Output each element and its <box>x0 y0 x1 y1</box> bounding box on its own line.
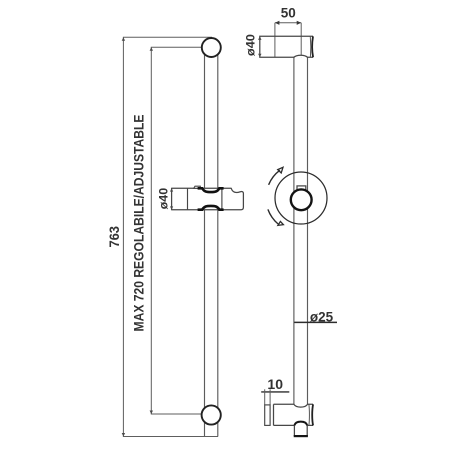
dimension 763 top extension line <box>123 36 212 38</box>
label 763 <box>107 226 122 248</box>
side view wall bracket top <box>260 36 313 57</box>
dimension MAX 720 vertical line <box>150 47 152 414</box>
side view swivel outer circle <box>275 172 327 224</box>
dimension MAX 720 bottom extension line <box>151 413 202 415</box>
front view slider left cap divider <box>187 188 189 209</box>
side view bottom bracket body <box>274 404 314 425</box>
front view slider body <box>172 188 244 209</box>
side view bracket diameter 40 arrowheads <box>258 36 261 57</box>
side view bottom bracket break edge <box>309 404 313 425</box>
svg-text:ø25: ø25 <box>310 309 334 324</box>
front view slider top collar arc <box>198 188 224 192</box>
rotation arrow top head <box>278 167 283 173</box>
side view hose outlet shoulder dome <box>294 422 307 426</box>
svg-text:763: 763 <box>107 226 122 248</box>
dimension 50 line <box>275 22 301 24</box>
rotation arrow top arc <box>269 170 280 185</box>
leader line diameter 25 <box>294 321 337 323</box>
front view top end cap circle <box>202 38 221 57</box>
front view bottom end cap circle <box>202 405 221 424</box>
side view knob inner circle <box>291 189 312 210</box>
dimension MAX 720 top extension line <box>151 46 203 48</box>
front view slider dimension ticks <box>170 188 173 209</box>
label MAX 720 REGOLABILE/ADJUSTABLE <box>131 115 146 332</box>
svg-text:50: 50 <box>281 6 296 21</box>
side view knob tab <box>297 186 306 190</box>
dimension 50 label <box>281 6 296 21</box>
side view hose outlet bottom edge <box>294 435 308 437</box>
dimension 50 arrowheads <box>275 21 301 25</box>
dimension 10 label <box>267 376 283 392</box>
dimension 50 right extension line <box>300 23 302 58</box>
side view bottom wall plate <box>265 405 270 426</box>
rotation arrow bottom head <box>278 221 284 225</box>
dimension 763 arrowheads <box>122 37 125 436</box>
label diameter 40 top bracket <box>244 34 258 56</box>
front view rail tube <box>205 42 218 437</box>
side view wall bracket top break edge <box>310 36 313 57</box>
front view slider release button tab <box>194 186 201 188</box>
side view hose outlet <box>294 425 307 436</box>
svg-text:MAX 720 REGOLABILE/ADJUSTABLE: MAX 720 REGOLABILE/ADJUSTABLE <box>131 115 146 332</box>
dimension 10 line <box>261 391 289 393</box>
front view slider bottom collar arc <box>198 206 224 210</box>
svg-text:ø40: ø40 <box>244 34 258 56</box>
dimension 10 extension lines <box>265 389 270 405</box>
svg-text:ø40: ø40 <box>159 188 171 210</box>
dimension 763 vertical line <box>122 37 124 436</box>
label diameter 25 <box>310 309 334 324</box>
label slider diameter 40 <box>159 188 171 210</box>
dimension 763 bottom extension line <box>123 436 218 438</box>
dimension 50 left extension line <box>274 23 276 58</box>
rotation arrow bottom arc <box>268 209 278 224</box>
side view rail tube <box>294 57 308 405</box>
dimension MAX 720 arrowheads <box>150 47 153 414</box>
front view slider right divider <box>221 188 223 209</box>
